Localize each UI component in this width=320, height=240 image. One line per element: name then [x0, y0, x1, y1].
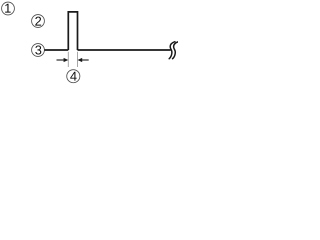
dimension leader left [57, 59, 65, 61]
dimension arrow right [78, 58, 83, 62]
dimension arrow left [64, 58, 69, 62]
dimension leader right [82, 59, 89, 61]
callout 1 [2, 2, 15, 15]
pulse waveform [68, 12, 77, 50]
extension line left [67, 52, 69, 67]
callout 2 [32, 15, 45, 28]
break symbol curve 1 [169, 42, 175, 59]
callout 3 [32, 44, 45, 57]
callout 4 [67, 70, 80, 83]
break symbol curve 2 [173, 42, 179, 59]
extension line right [77, 52, 79, 67]
wire baseline right [78, 49, 171, 51]
wire baseline left [44, 49, 68, 51]
